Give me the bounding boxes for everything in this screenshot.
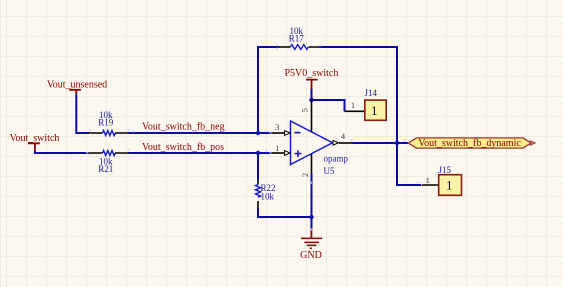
connector J14 [365,88,387,120]
svg-text:1: 1 [275,143,279,153]
svg-text:J15: J15 [439,165,452,175]
wire R21 to op-amp pin 1 [129,152,272,154]
svg-text:R17: R17 [289,33,305,43]
svg-text:1: 1 [426,175,430,185]
svg-text:J14: J14 [365,88,378,98]
connector J15 [439,165,462,195]
svg-text:Vout_switch_fb_pos: Vout_switch_fb_pos [142,142,224,153]
svg-text:opamp: opamp [324,153,349,163]
resistor R19 pins [89,132,129,134]
wire R22 to ground junction [258,208,312,217]
wire output to J15 [397,143,421,185]
op-amp pin 5 power [300,100,312,132]
wire Vout_switch to R21 [35,151,89,153]
op-amp pin 3 [271,122,290,135]
connector J15 pin 1 [422,184,439,186]
svg-text:GND: GND [300,250,322,261]
port Vout_switch_fb_dynamic [408,138,535,149]
svg-text:3: 3 [275,122,279,132]
wire Vout_unsensed to R19 [76,95,89,134]
svg-text:R19: R19 [98,118,114,128]
svg-text:10k: 10k [261,192,275,202]
junction ground [309,215,313,219]
wire feedback left vertical [258,47,280,133]
power port Vout_unsensed [47,80,107,95]
junction power [309,98,313,102]
resistor R22 pins [257,180,259,208]
resistor R21 pins [89,152,129,154]
wire pos junction to R22 [257,153,259,180]
svg-text:Vout_switch: Vout_switch [10,133,60,144]
svg-text:1: 1 [351,100,355,110]
svg-text:Vout_unsensed: Vout_unsensed [47,80,107,91]
wire op-amp output to right vertical [353,142,409,144]
svg-text:U5: U5 [324,166,335,176]
node markers [86,44,421,231]
svg-text:5: 5 [300,108,310,112]
junction neg input [256,131,260,135]
svg-text:1: 1 [371,103,378,118]
svg-text:2: 2 [300,173,310,177]
wire R17 to output vertical [319,47,397,143]
resistor R19 [98,110,115,136]
svg-text:1: 1 [446,177,453,192]
op-amp pin 4 output [333,131,353,145]
svg-text:Vout_switch_fb_neg: Vout_switch_fb_neg [142,122,225,133]
power port Vout_switch [10,133,60,151]
resistor R21 [98,151,115,175]
resistor R22 [256,183,276,202]
wire P5V0 to junction [311,89,313,100]
junction output [395,141,399,145]
svg-text:R21: R21 [98,164,113,174]
resistor R17 pins [280,46,319,48]
op-amp U5 [291,121,349,176]
svg-text:P5V0_switch: P5V0_switch [284,68,338,79]
wire R19 to op-amp pin 3 [129,132,272,134]
svg-text:Vout_switch_fb_dynamic: Vout_switch_fb_dynamic [418,138,521,149]
op-amp pin 1 [271,143,290,155]
resistor R17 [289,26,309,50]
wire junction to J14 [312,100,345,111]
connector J14 pin 1 [345,110,365,112]
power port P5V0_switch [284,68,338,89]
junction pos input [256,151,260,155]
op-amp pin 2 power [300,154,312,177]
ground GND [300,229,322,261]
wire pin2 to ground junction [311,174,313,229]
